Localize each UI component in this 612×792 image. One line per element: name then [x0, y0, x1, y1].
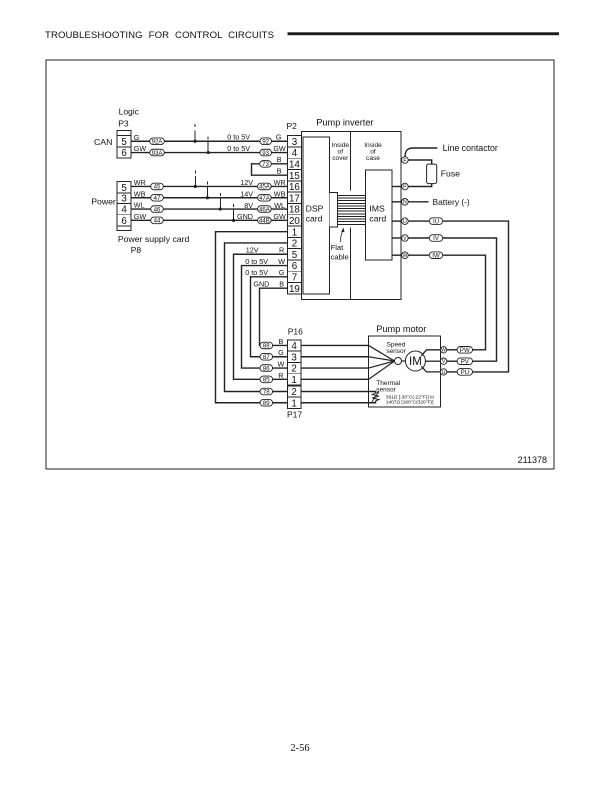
svg-text:1: 1 — [292, 227, 297, 238]
flat cable ribbon — [329, 193, 365, 228]
wire P16 pin4 to speed sensor — [301, 344, 369, 346]
svg-text:case: case — [366, 155, 380, 162]
svg-text:93: 93 — [262, 150, 269, 157]
svg-text:12V: 12V — [240, 178, 253, 187]
tag 73 — [260, 161, 272, 169]
svg-text:GW: GW — [273, 144, 286, 153]
tag PU — [457, 369, 472, 377]
svg-text:5: 5 — [121, 183, 127, 194]
svg-text:TROUBLESHOOTING FOR CONTROL CI: TROUBLESHOOTING FOR CONTROL CIRCUITS — [45, 30, 274, 41]
shield tap on wire G — [194, 124, 196, 127]
svg-text:V: V — [442, 359, 446, 365]
svg-text:G: G — [279, 268, 285, 277]
svg-text:Battery (-): Battery (-) — [433, 197, 470, 207]
label Speed sensor — [386, 341, 406, 355]
svg-text:44B: 44B — [259, 218, 270, 225]
svg-text:WB: WB — [274, 189, 286, 198]
svg-text:45A: 45A — [259, 184, 271, 191]
svg-text:PV: PV — [461, 358, 470, 365]
svg-text:2-56: 2-56 — [290, 743, 309, 754]
svg-text:cover: cover — [332, 155, 349, 162]
svg-text:IMS: IMS — [369, 204, 385, 214]
thermistor value note — [386, 394, 435, 405]
pump motor enclosure — [369, 336, 441, 407]
svg-text:card: card — [369, 213, 386, 223]
tag 46A — [258, 206, 272, 214]
svg-text:GW: GW — [134, 144, 147, 153]
svg-text:cable: cable — [331, 253, 349, 262]
wire P2 pin7 loop to tag 87 — [251, 277, 288, 357]
svg-text:W: W — [278, 257, 285, 266]
terminal U (motor) — [440, 369, 446, 376]
svg-text:1: 1 — [291, 375, 296, 386]
svg-text:sensor: sensor — [376, 386, 396, 393]
wire G: P3 pin5 to P2 pin3 — [131, 140, 287, 142]
svg-text:WL: WL — [274, 201, 285, 210]
tag 89 — [260, 399, 273, 407]
connector P8 (power supply card) — [117, 182, 131, 231]
svg-text:B: B — [277, 167, 282, 176]
svg-text:CAN: CAN — [94, 137, 112, 147]
svg-text:6: 6 — [121, 148, 127, 159]
svg-text:15: 15 — [289, 171, 300, 182]
svg-text:14: 14 — [289, 159, 300, 170]
tag 47A — [258, 194, 272, 202]
svg-text:3: 3 — [291, 352, 297, 363]
wire P16 pin3 to speed sensor — [301, 356, 369, 358]
svg-text:6: 6 — [121, 216, 127, 227]
connector P17 — [288, 386, 301, 409]
tag 93A — [150, 149, 165, 157]
svg-text:8V: 8V — [244, 201, 253, 210]
svg-text:R: R — [278, 371, 283, 380]
tag IW — [429, 252, 442, 260]
svg-text:46A: 46A — [259, 206, 271, 213]
svg-text:B: B — [277, 155, 282, 164]
svg-text:2: 2 — [291, 387, 296, 398]
wire line contactor from F — [405, 148, 437, 157]
wire PV to V terminal — [447, 360, 457, 362]
svg-text:F: F — [403, 158, 406, 164]
wire P2 pin1 loop to tag 89 — [216, 232, 288, 403]
svg-text:GND: GND — [253, 279, 269, 288]
svg-text:5: 5 — [121, 137, 127, 148]
wire IMS to terminal V — [392, 237, 401, 239]
svg-text:IM: IM — [409, 356, 422, 368]
svg-text:2: 2 — [291, 364, 296, 375]
svg-text:78: 78 — [263, 389, 270, 396]
wire WL: P8 to P2 — [131, 208, 287, 210]
svg-text:85: 85 — [263, 377, 270, 384]
terminal N — [402, 199, 409, 206]
svg-text:93A: 93A — [152, 150, 164, 157]
svg-text:IV: IV — [433, 235, 440, 242]
svg-text:16: 16 — [289, 182, 300, 193]
wire F to fuse — [408, 160, 432, 164]
tag 92A — [150, 138, 165, 146]
svg-text:88: 88 — [263, 343, 270, 350]
svg-text:Pump motor: Pump motor — [376, 324, 426, 334]
svg-text:20: 20 — [289, 216, 300, 227]
svg-text:W: W — [441, 348, 446, 354]
svg-text:DSP: DSP — [306, 204, 324, 214]
svg-text:19: 19 — [289, 284, 300, 295]
svg-text:GND: GND — [237, 212, 253, 221]
svg-text:2: 2 — [292, 239, 297, 250]
svg-text:87: 87 — [263, 354, 270, 361]
svg-text:P2: P2 — [287, 121, 298, 131]
connector P16 — [288, 340, 301, 386]
wire motor to terminal V — [425, 360, 440, 362]
DSP card U-DSP — [303, 137, 329, 294]
svg-text:4: 4 — [291, 341, 297, 352]
wire P2 pin5 loop to tag 85 — [234, 254, 288, 379]
tag 88 — [260, 342, 273, 350]
svg-text:86: 86 — [263, 365, 270, 372]
terminal W (motor) — [440, 347, 446, 354]
wire IMS to terminal P — [392, 186, 401, 188]
svg-text:P17: P17 — [287, 409, 302, 419]
svg-text:WR: WR — [274, 178, 286, 187]
wire P16 pin2 to speed sensor — [301, 367, 369, 369]
wire B jumper P2 pin14 to pin15 — [252, 164, 288, 175]
svg-text:G: G — [278, 348, 284, 357]
svg-text:GW: GW — [134, 212, 147, 221]
tag IV — [429, 235, 442, 243]
svg-text:P: P — [403, 184, 407, 190]
link wire G to GW — [207, 136, 209, 139]
tag 87 — [260, 353, 273, 361]
wire P17 pin2 to thermal sensor — [301, 392, 376, 394]
svg-text:0 to 5V: 0 to 5V — [227, 133, 250, 142]
svg-text:3: 3 — [292, 137, 298, 148]
tag 92 — [260, 138, 272, 146]
svg-text:B: B — [279, 337, 284, 346]
svg-text:W: W — [278, 359, 285, 368]
tag 86 — [260, 365, 273, 373]
svg-text:sensor: sensor — [386, 348, 406, 355]
label Inside of cover — [331, 142, 349, 162]
link WR to WB — [207, 182, 209, 185]
header rule bar — [288, 32, 560, 35]
svg-text:B: B — [279, 279, 284, 288]
svg-text:89: 89 — [263, 400, 270, 407]
svg-text:Line contactor: Line contactor — [443, 143, 498, 153]
svg-text:12V: 12V — [246, 246, 259, 255]
link WB to WL — [219, 193, 221, 196]
svg-text:Fuse: Fuse — [441, 169, 460, 179]
svg-text:73: 73 — [262, 161, 269, 168]
tag 44B — [258, 217, 272, 225]
tag 44 — [151, 217, 164, 225]
link WL to GW — [233, 204, 235, 207]
wire IV to PV (motor V phase) — [443, 238, 497, 361]
tag PW — [457, 347, 472, 355]
svg-text:WB: WB — [134, 189, 146, 198]
svg-text:Logic: Logic — [119, 107, 140, 117]
svg-text:IU: IU — [433, 218, 439, 225]
svg-text:6: 6 — [292, 261, 298, 272]
tag 45A — [258, 183, 272, 191]
svg-text:R: R — [279, 246, 284, 255]
terminal W — [402, 252, 409, 259]
wire WR: P8 to P2 — [131, 185, 287, 187]
svg-text:PW: PW — [460, 347, 470, 354]
wire P2 pin2 loop to tag 78 — [225, 243, 288, 392]
speed sensor pickup — [395, 358, 402, 365]
svg-text:3: 3 — [121, 194, 127, 205]
tag 47 — [151, 194, 164, 202]
svg-text:0 to 5V: 0 to 5V — [245, 257, 268, 266]
svg-text:N: N — [403, 200, 407, 206]
svg-text:Power supply card: Power supply card — [118, 234, 190, 244]
terminal F — [402, 157, 409, 164]
svg-text:Power: Power — [91, 196, 116, 206]
fuse F1 — [427, 164, 437, 184]
thermal sensor RT (thermistor) — [372, 393, 379, 401]
terminal U — [402, 218, 409, 225]
svg-text:WR: WR — [134, 178, 146, 187]
motor IM — [405, 351, 425, 371]
terminal P — [402, 183, 409, 190]
wire motor to terminal W — [421, 350, 440, 356]
wire IW to PW (motor W phase) — [443, 255, 486, 350]
wire IMS to terminal U — [392, 220, 401, 222]
svg-text:14V: 14V — [240, 189, 253, 198]
svg-text:4: 4 — [121, 205, 127, 216]
label Flat cable with arrow — [331, 228, 349, 262]
terminal V — [402, 235, 409, 242]
wire PW to W terminal — [447, 349, 457, 351]
wire thermal sensor to P17 pin1 — [301, 401, 376, 403]
svg-text:PU: PU — [461, 369, 469, 376]
wire P2 pin19 loop to tag 88 — [260, 288, 288, 345]
wire motor to terminal U — [421, 366, 440, 372]
IMS card U-IMS — [365, 170, 392, 260]
svg-text:GW: GW — [273, 212, 286, 221]
label Thermal sensor — [376, 380, 400, 393]
cover/case divider — [350, 132, 352, 191]
svg-text:Pump inverter: Pump inverter — [316, 118, 373, 128]
svg-text:4: 4 — [292, 148, 298, 159]
svg-text:W: W — [402, 253, 407, 259]
terminal V (motor) — [440, 358, 446, 365]
wire IMS to terminal N — [392, 201, 401, 203]
svg-text:0 to 5V: 0 to 5V — [245, 268, 268, 277]
tag 85 — [260, 376, 273, 384]
tag 46 — [151, 206, 164, 214]
svg-text:44: 44 — [154, 218, 161, 225]
svg-text:IW: IW — [432, 252, 440, 259]
svg-text:17: 17 — [289, 193, 300, 204]
wire WB: P8 to P2 — [131, 197, 287, 199]
svg-text:92: 92 — [262, 138, 269, 145]
svg-text:47A: 47A — [259, 195, 271, 202]
tag IU — [429, 218, 442, 226]
wire battery negative — [408, 201, 428, 203]
svg-text:45: 45 — [154, 184, 161, 191]
svg-text:G: G — [134, 133, 140, 142]
svg-text:card: card — [306, 213, 323, 223]
svg-text:Flat: Flat — [331, 243, 345, 252]
tag 93 — [260, 149, 272, 157]
wire fuse to P — [408, 184, 432, 187]
svg-text:1407Ω [160°C(320°F)]: 1407Ω [160°C(320°F)] — [386, 400, 434, 406]
wire IU to PU (motor U phase) — [443, 221, 509, 372]
wire GW: P8 to P2 — [131, 219, 287, 221]
tag 78 — [260, 388, 273, 396]
connector P3 (logic card) — [117, 130, 131, 159]
svg-text:G: G — [276, 133, 282, 142]
pump inverter enclosure — [301, 132, 400, 300]
wire V to tag IV — [408, 237, 429, 239]
wire IMS to terminal W — [392, 254, 401, 256]
svg-text:92A: 92A — [152, 138, 164, 145]
tag 45 — [151, 183, 164, 191]
tag PV — [457, 358, 472, 366]
svg-text:391Ω [-30°C(-22°F)] to: 391Ω [-30°C(-22°F)] to — [386, 394, 435, 400]
svg-text:P16: P16 — [288, 327, 303, 337]
svg-text:5: 5 — [292, 250, 298, 261]
diagram frame — [46, 60, 554, 469]
shield tap on wire WR — [194, 170, 196, 173]
svg-text:P3: P3 — [118, 118, 129, 128]
svg-text:211378: 211378 — [518, 455, 547, 465]
wire W to tag IW — [408, 254, 429, 256]
svg-text:18: 18 — [289, 205, 300, 216]
svg-text:U: U — [403, 219, 407, 225]
svg-text:46: 46 — [154, 206, 161, 213]
svg-text:U: U — [442, 370, 446, 376]
svg-text:1: 1 — [291, 398, 296, 409]
wire U to tag IU — [408, 220, 429, 222]
svg-text:0 to 5V: 0 to 5V — [227, 144, 250, 153]
wire PU to U terminal — [447, 371, 457, 373]
label Inside of case — [364, 142, 382, 162]
wire P2 pin6 loop to tag 86 — [242, 266, 288, 369]
svg-text:47: 47 — [154, 195, 161, 202]
svg-text:7: 7 — [292, 272, 297, 283]
wire GW: P3 pin6 to P2 pin4 — [131, 152, 287, 154]
wire sensor to motor — [402, 360, 406, 362]
wire P16 pin1 to speed sensor — [301, 378, 369, 380]
svg-text:WL: WL — [134, 201, 145, 210]
svg-text:P8: P8 — [131, 245, 142, 255]
svg-text:V: V — [403, 236, 407, 242]
